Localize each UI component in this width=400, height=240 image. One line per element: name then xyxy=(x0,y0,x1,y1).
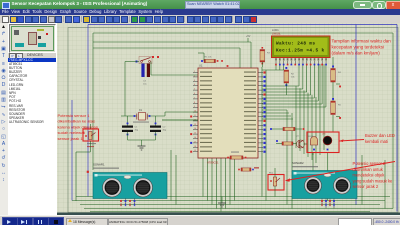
wire vertical I xyxy=(291,113,293,209)
svg-text:+5V: +5V xyxy=(246,35,251,38)
sonar SONAR1 HC-SR04 xyxy=(87,163,167,207)
svg-text:4: 4 xyxy=(194,84,195,86)
svg-text:AT89C51: AT89C51 xyxy=(207,161,219,165)
wire MCU port curtain 8 xyxy=(234,158,236,201)
wire bottom bus 3 xyxy=(80,204,380,206)
svg-text:(dalam m/s dan km/jam): (dalam m/s dan km/jam) xyxy=(332,51,381,56)
annotation bottom right xyxy=(353,161,394,189)
wire bottom bus 5 xyxy=(90,211,370,213)
wire vertical J xyxy=(319,64,321,155)
transistor Q1 xyxy=(296,136,305,149)
wire right vertical blue xyxy=(355,25,357,206)
wire MCU port curtain 1 xyxy=(202,158,204,197)
svg-text:Kec:1.25m =4.5 k: Kec:1.25m =4.5 k xyxy=(276,49,325,54)
wire vertical F xyxy=(261,67,263,197)
wire blue left drop xyxy=(87,25,89,197)
ground osc xyxy=(138,145,146,147)
wire vertical H xyxy=(286,110,288,205)
svg-text:3: 3 xyxy=(194,80,195,82)
wire green top xyxy=(93,32,393,34)
led D1 xyxy=(322,134,332,151)
wire reset feed xyxy=(124,62,126,117)
svg-text:8: 8 xyxy=(194,102,195,104)
wire sonar1 pins xyxy=(120,197,122,199)
wire VCC blue top xyxy=(88,24,397,26)
svg-text:karena objek dianggap: karena objek dianggap xyxy=(58,124,99,129)
wire MCU port curtain 7 xyxy=(229,158,231,205)
svg-text:Waktu: 248 ms: Waktu: 248 ms xyxy=(276,42,315,47)
title bar xyxy=(0,0,400,9)
svg-text:dikembalikan ke atas: dikembalikan ke atas xyxy=(58,119,95,124)
svg-text:SONAR1: SONAR1 xyxy=(93,163,105,167)
wire RV1 xyxy=(89,124,91,129)
toolbar xyxy=(0,15,400,25)
resistor R5 xyxy=(331,98,342,119)
svg-text:R1 10k: R1 10k xyxy=(205,57,213,59)
wire MCU port curtain 6 xyxy=(225,158,227,209)
svg-text:Potensio sensor 1: Potensio sensor 1 xyxy=(58,113,91,118)
mcu U1 AT89C51 xyxy=(190,64,265,165)
wire right low verts xyxy=(361,155,363,205)
svg-text:18: 18 xyxy=(194,146,196,148)
buzzer BZ1 xyxy=(308,136,318,150)
resistor R8 xyxy=(227,152,246,160)
svg-text:14: 14 xyxy=(194,128,196,130)
wire left vertical B xyxy=(75,152,77,201)
arrow buzzer xyxy=(340,140,365,142)
annotation box RV1 xyxy=(83,129,99,141)
sidebar xyxy=(8,23,58,215)
wire to MCU top B xyxy=(93,47,240,49)
wire right edge blue xyxy=(396,25,398,212)
svg-text:BUZ1: BUZ1 xyxy=(308,136,314,138)
menu bar xyxy=(0,9,400,15)
svg-text:yang sudah masuk ke: yang sudah masuk ke xyxy=(353,178,394,183)
svg-text:6: 6 xyxy=(194,93,195,95)
wire left vertical A xyxy=(71,100,73,201)
annotation box RV2 xyxy=(268,175,284,191)
capacitor C2 xyxy=(150,123,167,136)
svg-text:kecepatan yang terdeteksi: kecepatan yang terdeteksi xyxy=(332,45,385,50)
svg-text:16: 16 xyxy=(194,137,196,139)
svg-text:1: 1 xyxy=(194,71,195,73)
wire left vertical D xyxy=(92,33,94,170)
sheet bottom dark band xyxy=(57,213,400,216)
svg-text:17: 17 xyxy=(194,141,196,143)
wire bottom bus 4 xyxy=(84,208,393,210)
potentiometer RV2 xyxy=(269,173,280,187)
resistor R6 xyxy=(276,140,297,145)
ground mid xyxy=(221,197,223,204)
potentiometer RV1 xyxy=(84,127,96,147)
svg-text:U1: U1 xyxy=(199,64,203,68)
svg-text:9: 9 xyxy=(194,106,195,108)
svg-text:Buzzer dan LED: Buzzer dan LED xyxy=(365,133,395,138)
svg-text:11: 11 xyxy=(194,115,196,117)
arrow RV2 xyxy=(286,162,395,181)
wire right vertical E xyxy=(392,33,394,209)
wire buzzer base xyxy=(304,143,308,145)
wire sensor1 right vert xyxy=(170,150,172,201)
svg-text:5: 5 xyxy=(194,89,195,91)
svg-text:LCD1: LCD1 xyxy=(272,28,279,32)
overview minimap xyxy=(9,24,56,53)
svg-text:7: 7 xyxy=(194,97,195,99)
left tool strip xyxy=(0,23,9,215)
wire sonar2 pins xyxy=(321,199,323,205)
button RESET xyxy=(136,56,160,64)
resistor R1 xyxy=(198,53,223,63)
schematic canvas xyxy=(57,23,400,215)
resistor R9 xyxy=(238,167,259,171)
svg-text:mendeteksi objek: mendeteksi objek xyxy=(353,173,386,178)
wire LCD pin drops xyxy=(298,65,300,87)
svg-text:10: 10 xyxy=(194,111,196,113)
svg-text:LED: LED xyxy=(322,134,326,136)
wire reset net xyxy=(125,61,139,63)
wire to MCU top A xyxy=(93,41,251,43)
svg-text:15: 15 xyxy=(194,133,196,135)
wire MCU port curtain 5 xyxy=(220,158,222,212)
svg-text:sensor jarak 1: sensor jarak 1 xyxy=(58,136,84,141)
svg-text:sensor jarak 2: sensor jarak 2 xyxy=(353,184,379,189)
svg-text:13: 13 xyxy=(194,124,196,126)
svg-text:19: 19 xyxy=(194,150,196,152)
wire bottom bus 2 xyxy=(72,200,385,202)
wire bottom bus 1 xyxy=(76,196,390,198)
capacitor C1 xyxy=(122,123,139,136)
wire MCU port curtain 3 xyxy=(211,158,213,205)
svg-text:2: 2 xyxy=(194,75,195,77)
svg-text:LM016L: LM016L xyxy=(272,33,281,36)
crystal X1 xyxy=(121,109,165,123)
wire buzzer drops xyxy=(312,153,314,197)
svg-text:SONAR2: SONAR2 xyxy=(292,161,304,165)
wire RV2 xyxy=(274,168,276,177)
wire mesh verticals xyxy=(295,86,297,148)
wire MCU port curtain 2 xyxy=(207,158,209,201)
svg-text:sudah melewati: sudah melewati xyxy=(58,130,86,135)
capacitor C3 (charged) xyxy=(141,64,150,86)
wire control mesh xyxy=(262,109,287,111)
power +5V xyxy=(247,38,249,42)
svg-text:diturunkan untuk: diturunkan untuk xyxy=(353,167,384,172)
annotation buzzer text xyxy=(365,133,395,144)
svg-text:Tampilan informasi waktu dan: Tampilan informasi waktu dan xyxy=(332,39,392,44)
annotation box buzzer xyxy=(307,132,339,153)
wire vertical K xyxy=(323,64,325,150)
resistor R3 xyxy=(260,47,271,67)
annotation left xyxy=(58,113,99,141)
svg-text:kembali mati: kembali mati xyxy=(365,139,388,144)
wire LCD data bus mesh xyxy=(262,85,299,87)
sheet border xyxy=(68,28,398,213)
wire osc gnd xyxy=(127,132,129,140)
resistor R7 xyxy=(270,127,304,130)
sonar SONAR2 HC-SR04 xyxy=(292,161,357,206)
resistor R2 xyxy=(284,67,295,95)
wire osc links xyxy=(127,116,129,126)
status bar xyxy=(0,215,400,226)
wire vertical G xyxy=(265,70,267,201)
lcd LCD1 LM016L xyxy=(272,28,331,65)
annotation top right xyxy=(332,39,392,56)
wire MCU port curtain 4 xyxy=(216,158,218,209)
resistor R4 xyxy=(331,66,342,88)
